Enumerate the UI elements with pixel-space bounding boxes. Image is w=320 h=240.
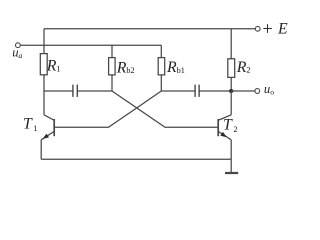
terminal u_o — [255, 89, 260, 94]
resistor R2 — [228, 59, 235, 78]
wire: cross-coupling Rb1 node to T1 base — [55, 91, 161, 127]
resistor Rb2 — [109, 58, 116, 75]
wire: bottom emitter rail — [41, 158, 231, 160]
wire: R1 top (from rail corner down) — [43, 29, 45, 54]
wire: Rb1 top stub — [160, 45, 162, 57]
wire: Rb1 bottom node to C2 — [161, 90, 195, 92]
svg-text:uo: uo — [264, 82, 274, 96]
svg-text:E: E — [277, 21, 288, 38]
capacitor C2 — [195, 85, 199, 97]
svg-text:R2: R2 — [236, 59, 251, 76]
svg-text:R1: R1 — [46, 57, 61, 74]
wire: Rb2 bottom stub to cross node — [111, 75, 113, 91]
wire: T1 collector node to C1 — [44, 90, 73, 92]
wire: Rb1 bottom stub to cross node — [160, 75, 162, 91]
transistor T1 — [41, 91, 54, 159]
wire: R2 top stub from rail — [230, 29, 232, 59]
wire: cross-coupling Rb2 node to T2 base — [112, 91, 218, 127]
wire: u_a rail (crosses R1 wire, to Rb1 corner) — [20, 44, 161, 46]
svg-text:T1: T1 — [23, 116, 37, 133]
svg-text:ua: ua — [12, 46, 22, 60]
resistor R1 — [40, 54, 47, 75]
wire: +E top supply rail — [44, 28, 255, 30]
svg-text:Rb2: Rb2 — [116, 60, 135, 77]
ground — [225, 159, 238, 173]
resistor Rb1 — [158, 58, 165, 75]
transistor T2 — [218, 91, 231, 159]
wire: R2 bottom to u_o node — [230, 77, 232, 91]
svg-text:Rb1: Rb1 — [166, 59, 185, 76]
junction dot: u_o node — [229, 89, 233, 93]
wire: Rb2 top stub — [111, 45, 113, 57]
wire: u_o node to output terminal — [231, 90, 255, 92]
terminal u_a — [16, 43, 21, 48]
capacitor C1 — [73, 85, 77, 97]
label + E — [263, 24, 272, 33]
terminal +E — [255, 26, 260, 31]
wire: C2 to u_o node — [199, 90, 231, 92]
svg-text:T2: T2 — [223, 116, 237, 134]
wire: R1 bottom to T1 collector node — [43, 75, 45, 91]
wire: C1 to Rb2 bottom node — [77, 90, 112, 92]
